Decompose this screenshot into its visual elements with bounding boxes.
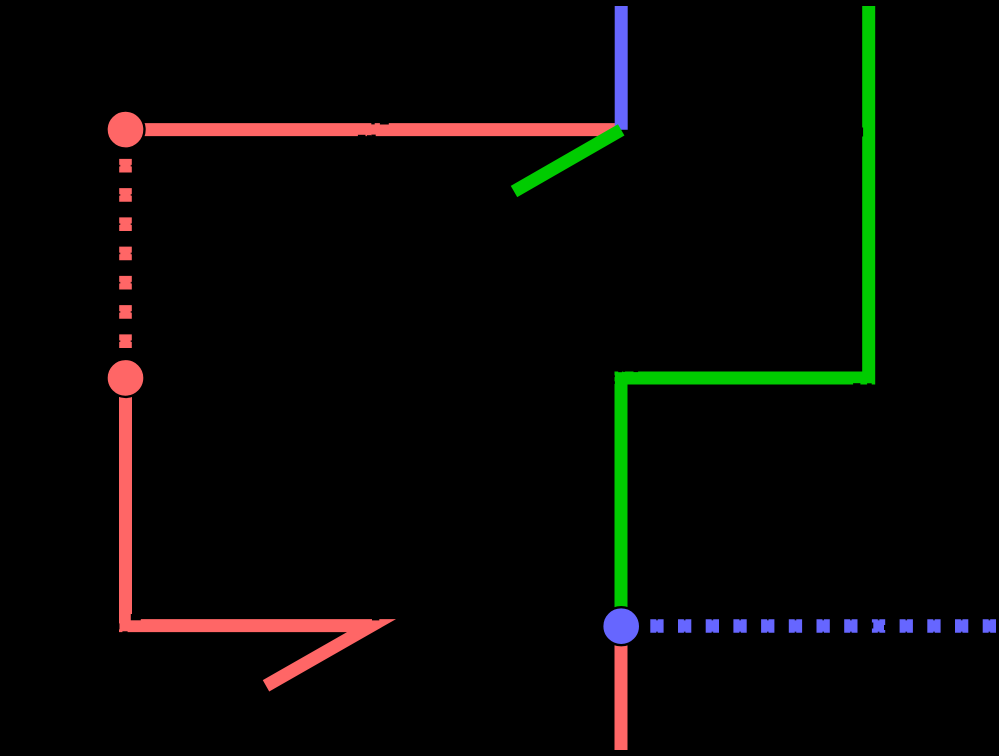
wire red dashed vertical A to B [119, 130, 132, 378]
wire red bottom vertical below blue node [615, 626, 628, 750]
wire red top horizontal A to junction [126, 123, 619, 136]
wire blue dotted nicks top edge [629, 619, 999, 621]
label fragment on green right vertical [861, 128, 863, 137]
wire blue dotted horizontal [621, 619, 999, 632]
label fragment on green horizontal bottom right [853, 383, 872, 389]
wire green main polyline [621, 6, 869, 626]
wire blue vertical top [615, 6, 628, 130]
node blue marker [602, 607, 640, 645]
wire blue dotted nicks bottom edge [629, 631, 999, 633]
node A red marker [107, 111, 145, 149]
wire red dashed nicks right edge [130, 136, 132, 378]
node B red marker [107, 359, 145, 397]
label fragment on red bottom horizontal [114, 614, 379, 637]
wire green diagonal [514, 130, 621, 192]
label fragment on green horizontal left [610, 366, 638, 384]
label fragment on blue dotted dots [872, 623, 886, 631]
label fragment on red top line [358, 118, 389, 141]
wire red solid B down, right, and hairpin diagonal [126, 378, 372, 686]
wire red dashed nicks left edge [119, 136, 121, 378]
